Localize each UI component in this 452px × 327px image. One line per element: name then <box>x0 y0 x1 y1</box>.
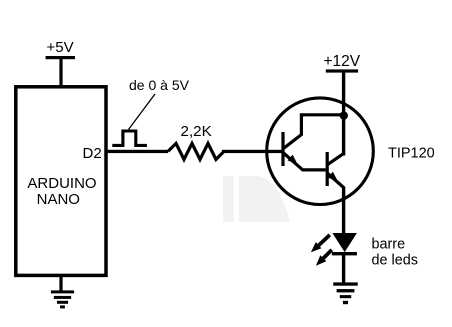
svg-text:NANO: NANO <box>37 191 80 208</box>
wire <box>342 187 345 235</box>
svg-text:de leds: de leds <box>372 252 418 268</box>
node: collector junction <box>340 111 348 119</box>
svg-text:barre: barre <box>372 237 406 253</box>
power supply +12V <box>324 53 361 73</box>
svg-text:+12V: +12V <box>324 53 361 70</box>
wire <box>59 59 62 86</box>
svg-text:2,2K: 2,2K <box>181 123 212 140</box>
LED D1 (barre de leds) <box>332 233 357 255</box>
ground (left) <box>51 290 74 308</box>
ground (right) <box>333 282 358 304</box>
svg-text:ARDUINO: ARDUINO <box>27 175 96 192</box>
callout line <box>129 94 156 130</box>
wire <box>106 150 168 153</box>
svg-text:D2: D2 <box>83 145 102 162</box>
resistor R1 <box>168 143 224 159</box>
power supply +5V <box>46 39 75 59</box>
LED light arrows <box>311 235 332 266</box>
svg-text:de 0 à 5V: de 0 à 5V <box>129 77 190 93</box>
transistor Q1 TIP120 (Darlington pair) <box>267 98 374 205</box>
wire <box>342 72 345 156</box>
svg-text:+5V: +5V <box>47 39 74 56</box>
IC U1 Arduino Nano <box>16 87 106 276</box>
label: barre de leds <box>372 237 418 269</box>
wire <box>59 277 62 292</box>
wire <box>342 255 345 283</box>
pulse waveform symbol <box>112 131 147 145</box>
label: ARDUINO NANO <box>27 175 96 208</box>
svg-text:TIP120: TIP120 <box>388 146 435 162</box>
wire <box>222 150 284 153</box>
